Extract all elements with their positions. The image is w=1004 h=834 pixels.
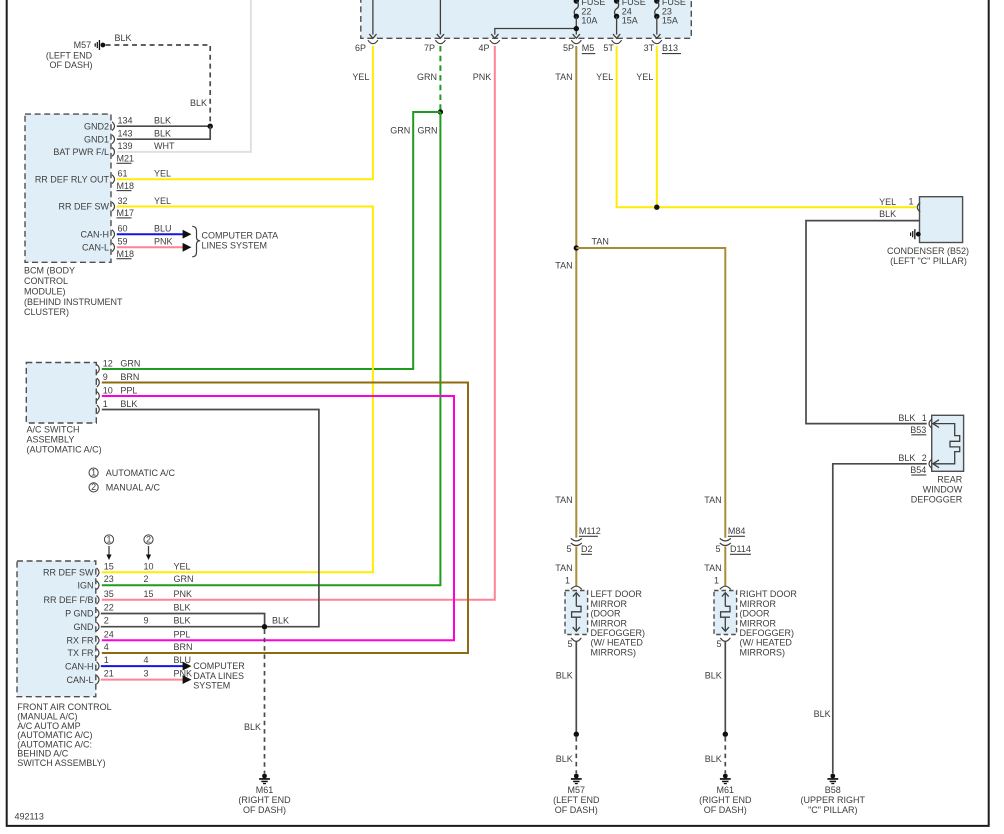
- BCM box (body control module): [25, 114, 111, 262]
- fuse F23 15A: [653, 0, 686, 38]
- front air control pin 35 RR DEF F/B: [43, 589, 192, 605]
- svg-text:10: 10: [144, 561, 154, 571]
- svg-text:RR DEF RLY OUT: RR DEF RLY OUT: [35, 174, 110, 184]
- svg-text:61: 61: [118, 169, 128, 179]
- svg-text:WHT: WHT: [154, 141, 175, 151]
- svg-text:32: 32: [118, 196, 128, 206]
- left door mirror defogger: [565, 586, 645, 657]
- svg-text:SYSTEM: SYSTEM: [193, 681, 230, 691]
- svg-text:MIRROR: MIRROR: [740, 599, 777, 609]
- svg-text:10A: 10A: [581, 15, 597, 25]
- svg-text:MIRRORS): MIRRORS): [740, 647, 786, 657]
- svg-text:M112: M112: [579, 526, 601, 536]
- svg-text:WINDOW: WINDOW: [923, 485, 963, 495]
- svg-text:(W/ HEATED: (W/ HEATED: [591, 638, 644, 648]
- wire PNK front air control CAN-L to data link arrow: [101, 675, 192, 684]
- svg-text:B13: B13: [662, 43, 678, 53]
- svg-text:139: 139: [118, 141, 133, 151]
- svg-text:24: 24: [104, 629, 114, 639]
- svg-text:5: 5: [715, 544, 720, 554]
- wire PNK CAN-L to data link arrow: [117, 243, 192, 252]
- BCM pin 61 RR DEF RLY OUT connector M18: [35, 169, 171, 191]
- svg-text:GRN: GRN: [174, 574, 194, 584]
- svg-text:BLK: BLK: [705, 670, 722, 680]
- svg-text:CAN-H: CAN-H: [65, 661, 94, 671]
- ground M57 below mirror: [553, 774, 600, 815]
- svg-text:1: 1: [714, 575, 719, 585]
- wire BLK dashed to ground M61: [705, 737, 726, 773]
- svg-text:M21: M21: [117, 154, 135, 164]
- svg-text:21: 21: [104, 669, 114, 679]
- BCM pin 143 GND1: [84, 129, 171, 145]
- svg-text:OF DASH): OF DASH): [49, 60, 92, 70]
- wire BLK GND2 to junction: [117, 125, 210, 127]
- svg-text:GRN: GRN: [390, 126, 410, 136]
- wire BLK condenser case ground to rear window defogger pin 1: [806, 209, 927, 424]
- svg-text:(UPPER RIGHT: (UPPER RIGHT: [801, 795, 866, 805]
- svg-text:(AUTOMATIC A/C): (AUTOMATIC A/C): [27, 444, 102, 454]
- svg-text:12: 12: [103, 358, 113, 368]
- svg-text:BLK: BLK: [898, 413, 915, 423]
- node TAN junction: [574, 245, 579, 250]
- svg-text:PNK: PNK: [174, 589, 193, 599]
- svg-text:BLK: BLK: [244, 722, 261, 732]
- svg-text:M57: M57: [568, 785, 586, 795]
- wire BLK dashed from M57 to GND2 junction: [106, 33, 211, 122]
- A/C switch assembly box: [26, 363, 96, 424]
- connector 4P: [479, 40, 500, 53]
- wire YEL BCM 32 to front air control pin 15: [102, 207, 373, 573]
- svg-text:GRN: GRN: [418, 126, 438, 136]
- svg-text:TAN: TAN: [555, 72, 572, 82]
- svg-text:YEL: YEL: [636, 72, 653, 82]
- front air control pin 22 P GND: [65, 603, 190, 619]
- wire BLK dashed to ground M61: [244, 630, 265, 774]
- svg-text:5T: 5T: [603, 43, 614, 53]
- diagram number 492113: [15, 812, 44, 822]
- computer data lines system (BCM): [192, 226, 278, 256]
- fuse block junction box (top, cut off): [361, 0, 692, 38]
- svg-text:GRN: GRN: [120, 358, 140, 368]
- svg-text:CONTROL: CONTROL: [24, 276, 68, 286]
- svg-text:TAN: TAN: [555, 261, 572, 271]
- connector 3T B13: [644, 40, 681, 53]
- svg-text:6P: 6P: [355, 43, 366, 53]
- svg-text:1: 1: [106, 534, 111, 544]
- wire BLU CAN-H to data link arrow: [117, 230, 192, 239]
- svg-text:BLK: BLK: [556, 754, 573, 764]
- svg-text:5P: 5P: [563, 43, 574, 53]
- A/C switch pin 9 BRN: [97, 372, 140, 387]
- svg-text:BLK: BLK: [174, 603, 191, 613]
- svg-text:MODULE): MODULE): [24, 287, 66, 297]
- svg-text:CAN-H: CAN-H: [81, 229, 110, 239]
- wire TAN connector to mirror pin 1: [555, 547, 576, 587]
- svg-text:BLK: BLK: [174, 616, 191, 626]
- svg-text:CONDENSER (B52): CONDENSER (B52): [887, 246, 969, 256]
- wire GRN junction to front air control IGN pin 23: [102, 112, 441, 585]
- svg-text:5: 5: [567, 639, 572, 649]
- svg-text:2: 2: [922, 453, 927, 463]
- svg-text:ASSEMBLY: ASSEMBLY: [27, 434, 75, 444]
- front air control pin 15 RR DEF SW: [43, 561, 191, 577]
- svg-text:15A: 15A: [662, 15, 678, 25]
- wire TAN connector to mirror pin 1: [704, 547, 725, 587]
- wire BLK mirror to ground: [705, 642, 726, 735]
- inline connector M84 / D114: [715, 526, 751, 554]
- svg-text:4: 4: [104, 642, 109, 652]
- node BLK ground junction: [262, 624, 267, 629]
- svg-text:RR DEF SW: RR DEF SW: [43, 568, 94, 578]
- wire BLK A/C switch 1 to ground junction: [102, 410, 319, 627]
- svg-text:M84: M84: [728, 526, 746, 536]
- svg-text:BLK: BLK: [154, 116, 171, 126]
- svg-text:OF DASH): OF DASH): [555, 805, 598, 815]
- svg-text:BLK: BLK: [556, 670, 573, 680]
- svg-text:CLUSTER): CLUSTER): [24, 307, 69, 317]
- svg-text:(DOOR: (DOOR: [740, 609, 770, 619]
- svg-text:PNK: PNK: [473, 72, 492, 82]
- svg-text:TAN: TAN: [704, 495, 721, 505]
- svg-text:(BEHIND INSTRUMENT: (BEHIND INSTRUMENT: [24, 297, 123, 307]
- connector 7P: [424, 40, 445, 53]
- svg-text:35: 35: [104, 589, 114, 599]
- BCM pin 32 RR DEF SW connector M17: [59, 196, 172, 218]
- ground M61 (right end of dash) below front air control: [238, 774, 291, 815]
- connector 5T: [603, 40, 621, 53]
- svg-text:YEL: YEL: [154, 196, 171, 206]
- svg-text:BAT PWR F/L: BAT PWR F/L: [53, 147, 109, 157]
- svg-text:TX FR: TX FR: [68, 648, 94, 658]
- svg-text:M18: M18: [117, 181, 135, 191]
- svg-text:M18: M18: [117, 249, 135, 259]
- svg-text:BRN: BRN: [174, 642, 193, 652]
- ground M61 below mirror: [699, 774, 752, 815]
- svg-text:YEL: YEL: [154, 169, 171, 179]
- svg-text:DEFOGGER: DEFOGGER: [911, 495, 963, 505]
- BCM pin 60 CAN-H: [81, 224, 172, 240]
- wire YEL from 3T to junction: [636, 46, 657, 207]
- computer data lines system (front air control): [193, 661, 245, 691]
- svg-text:SWITCH ASSEMBLY): SWITCH ASSEMBLY): [17, 758, 105, 768]
- front air control column marker 2: [144, 534, 153, 560]
- svg-text:OF DASH): OF DASH): [243, 805, 286, 815]
- svg-text:BLK: BLK: [115, 33, 132, 43]
- svg-text:LEFT DOOR: LEFT DOOR: [591, 589, 643, 599]
- wire PNK from 4P to front air control pin 35: [102, 46, 495, 600]
- wire WHT off page top: [117, 0, 251, 152]
- svg-text:A/C SWITCH: A/C SWITCH: [27, 425, 80, 435]
- svg-text:3T: 3T: [644, 43, 655, 53]
- svg-text:TAN: TAN: [704, 563, 721, 573]
- front air control pin 1 CAN-H: [65, 655, 191, 671]
- svg-text:1: 1: [922, 413, 927, 423]
- svg-text:15: 15: [144, 589, 154, 599]
- svg-text:2: 2: [144, 574, 149, 584]
- ground B58 (upper right C pillar): [801, 774, 866, 815]
- right door mirror defogger: [714, 586, 797, 657]
- wire YEL from 6P to BCM pin 61: [117, 46, 373, 179]
- svg-text:B54: B54: [910, 465, 926, 475]
- A/C switch pin 10 PPL: [97, 385, 138, 400]
- svg-text:TAN: TAN: [555, 563, 572, 573]
- wire BLK front air control P GND to ground junction: [101, 614, 265, 627]
- svg-text:1: 1: [909, 197, 914, 207]
- svg-text:134: 134: [118, 116, 133, 126]
- svg-text:PPL: PPL: [120, 385, 137, 395]
- svg-text:IGN: IGN: [77, 580, 93, 590]
- A/C switch pin 12 GRN: [97, 358, 141, 373]
- svg-text:BCM (BODY: BCM (BODY: [24, 266, 75, 276]
- svg-text:"C" PILLAR): "C" PILLAR): [808, 805, 857, 815]
- svg-text:(RIGHT END: (RIGHT END: [699, 795, 752, 805]
- svg-text:MIRROR: MIRROR: [591, 618, 628, 628]
- svg-text:M17: M17: [117, 208, 135, 218]
- svg-text:60: 60: [118, 224, 128, 234]
- wire BRN A/C switch 9 to front air control TX FR pin 4: [102, 383, 468, 654]
- svg-text:(W/ HEATED: (W/ HEATED: [740, 638, 793, 648]
- svg-text:143: 143: [118, 129, 133, 139]
- wire BLK front air control GND to ground junction: [101, 616, 289, 627]
- svg-text:DEFOGGER): DEFOGGER): [740, 628, 795, 638]
- svg-text:DEFOGGER): DEFOGGER): [591, 628, 646, 638]
- svg-text:D2: D2: [581, 544, 593, 554]
- wire BLK mirror to ground: [556, 642, 577, 735]
- svg-text:LINES SYSTEM: LINES SYSTEM: [202, 241, 268, 251]
- svg-text:P GND: P GND: [65, 609, 94, 619]
- svg-text:YEL: YEL: [596, 72, 613, 82]
- svg-text:(RIGHT END: (RIGHT END: [238, 795, 291, 805]
- front air control box: [17, 561, 96, 697]
- svg-text:22: 22: [104, 603, 114, 613]
- svg-text:RR DEF SW: RR DEF SW: [59, 202, 110, 212]
- svg-text:DATA LINES: DATA LINES: [193, 671, 244, 681]
- svg-text:TAN: TAN: [592, 236, 609, 246]
- wire YEL from 5T to condenser pin 1: [596, 46, 916, 207]
- svg-text:10: 10: [103, 385, 113, 395]
- svg-text:23: 23: [104, 574, 114, 584]
- svg-text:RIGHT DOOR: RIGHT DOOR: [740, 589, 798, 599]
- svg-text:492113: 492113: [15, 812, 44, 822]
- node BLK ground junction: [208, 124, 213, 129]
- svg-text:5: 5: [716, 639, 721, 649]
- svg-text:COMPUTER DATA: COMPUTER DATA: [202, 231, 279, 241]
- wire 7P feed inside fuse box: [437, 0, 444, 38]
- svg-text:REAR: REAR: [937, 474, 963, 484]
- legend note 1 automatic A/C: [89, 467, 175, 477]
- svg-text:BLK: BLK: [272, 616, 289, 626]
- svg-text:TAN: TAN: [555, 495, 572, 505]
- front air control pin 21 CAN-L: [66, 669, 192, 685]
- svg-text:COMPUTER: COMPUTER: [193, 661, 245, 671]
- inline connector M112 / D2: [566, 526, 600, 554]
- node YEL junction: [654, 205, 659, 210]
- svg-text:5: 5: [566, 544, 571, 554]
- svg-text:M61: M61: [256, 785, 274, 795]
- svg-text:9: 9: [144, 616, 149, 626]
- svg-text:B53: B53: [910, 425, 926, 435]
- wire 4P branch from fuse 22: [491, 29, 576, 39]
- svg-text:GND2: GND2: [84, 121, 109, 131]
- svg-text:BLK: BLK: [705, 754, 722, 764]
- front air control pin 2 GND: [74, 616, 191, 632]
- svg-text:1: 1: [91, 467, 96, 477]
- wire GRN from 7P (dashed) to junction: [417, 46, 440, 111]
- svg-text:MANUAL A/C: MANUAL A/C: [106, 483, 161, 493]
- svg-text:D114: D114: [730, 544, 751, 554]
- svg-text:(LEFT END: (LEFT END: [46, 50, 93, 60]
- svg-text:GND1: GND1: [84, 134, 109, 144]
- connector 5P M5: [563, 40, 595, 53]
- legend note 2 manual A/C: [89, 482, 160, 492]
- svg-text:RR DEF F/B: RR DEF F/B: [43, 595, 93, 605]
- BCM pin 134 GND2: [84, 116, 171, 132]
- svg-text:B58: B58: [825, 785, 841, 795]
- svg-text:M57: M57: [74, 40, 92, 50]
- connector 6P: [355, 40, 378, 53]
- svg-text:2: 2: [146, 534, 151, 544]
- front air control label: [17, 702, 111, 768]
- svg-text:YEL: YEL: [352, 72, 369, 82]
- svg-text:59: 59: [118, 237, 128, 247]
- svg-text:(DOOR: (DOOR: [591, 609, 621, 619]
- svg-text:7P: 7P: [424, 43, 435, 53]
- svg-text:GRN: GRN: [417, 72, 437, 82]
- svg-text:2: 2: [104, 616, 109, 626]
- node solid to dashed: [723, 732, 728, 737]
- rear window defogger: [898, 413, 963, 505]
- wire BLK GND1 to junction: [117, 126, 210, 139]
- fuse F22 10A: [573, 0, 606, 38]
- svg-text:BLU: BLU: [154, 224, 172, 234]
- svg-text:MIRROR: MIRROR: [591, 599, 628, 609]
- condenser B52: [879, 197, 969, 266]
- svg-text:GND: GND: [74, 622, 95, 632]
- svg-text:BLK: BLK: [120, 399, 137, 409]
- svg-text:PPL: PPL: [174, 629, 191, 639]
- wire TAN branch to inline connector M84: [576, 236, 725, 538]
- svg-text:(LEFT END: (LEFT END: [553, 795, 600, 805]
- svg-text:BRN: BRN: [120, 372, 139, 382]
- svg-text:2: 2: [91, 482, 96, 492]
- svg-text:M5: M5: [582, 43, 595, 53]
- svg-text:9: 9: [103, 372, 108, 382]
- svg-text:CAN-L: CAN-L: [66, 675, 93, 685]
- svg-text:OF DASH): OF DASH): [704, 805, 747, 815]
- svg-text:BLK: BLK: [154, 129, 171, 139]
- svg-text:RX FR: RX FR: [67, 636, 95, 646]
- BCM label: [24, 266, 123, 318]
- node solid to dashed: [574, 732, 579, 737]
- wire PPL A/C switch 10 to front air control RX FR pin 24: [102, 396, 454, 640]
- fuse F24 15A: [613, 0, 646, 38]
- svg-text:3: 3: [144, 669, 149, 679]
- svg-text:1: 1: [103, 399, 108, 409]
- svg-text:15A: 15A: [622, 15, 638, 25]
- svg-text:4P: 4P: [479, 43, 490, 53]
- svg-text:BLK: BLK: [190, 98, 207, 108]
- svg-text:MIRROR: MIRROR: [740, 618, 777, 628]
- front air control pin 23 IGN: [77, 574, 193, 590]
- front air control pin 4 TX FR: [68, 642, 193, 658]
- wire 6P feed inside fuse box: [369, 0, 376, 38]
- svg-text:CAN-L: CAN-L: [82, 243, 109, 253]
- ground M57 (left end of dash) top: [46, 40, 105, 70]
- svg-text:1: 1: [104, 655, 109, 665]
- svg-text:M61: M61: [717, 785, 735, 795]
- svg-text:YEL: YEL: [879, 197, 896, 207]
- svg-text:BLU: BLU: [174, 655, 192, 665]
- svg-text:4: 4: [144, 655, 149, 665]
- wire TAN from 5P to inline connector M112: [555, 46, 576, 538]
- svg-text:BLK: BLK: [879, 209, 896, 219]
- A/C switch assembly label: [27, 425, 102, 455]
- wire BLU front air control CAN-H to data link arrow: [101, 662, 192, 671]
- svg-text:MIRRORS): MIRRORS): [591, 647, 637, 657]
- svg-text:PNK: PNK: [154, 237, 173, 247]
- wire BLK rear window defogger pin 2 to ground B58: [814, 464, 927, 774]
- node GRN junction: [438, 109, 443, 114]
- BCM pin 59 CAN-L connector M18: [82, 237, 173, 259]
- front air control pin 24 RX FR: [67, 629, 191, 645]
- svg-text:1: 1: [565, 575, 570, 585]
- wire GRN branch to A/C switch assembly pin 12: [102, 112, 441, 369]
- front air control column marker 1: [104, 534, 113, 560]
- A/C switch pin 1 BLK: [97, 399, 138, 414]
- BCM pin 139 BAT PWR F/L connector M21: [53, 141, 175, 163]
- svg-text:AUTOMATIC A/C: AUTOMATIC A/C: [106, 468, 176, 478]
- svg-text:15: 15: [104, 561, 114, 571]
- svg-text:BLK: BLK: [898, 453, 915, 463]
- svg-text:(LEFT "C" PILLAR): (LEFT "C" PILLAR): [890, 256, 967, 266]
- wire BLK dashed to ground M57: [556, 737, 577, 773]
- svg-text:BLK: BLK: [814, 709, 831, 719]
- svg-text:YEL: YEL: [174, 561, 191, 571]
